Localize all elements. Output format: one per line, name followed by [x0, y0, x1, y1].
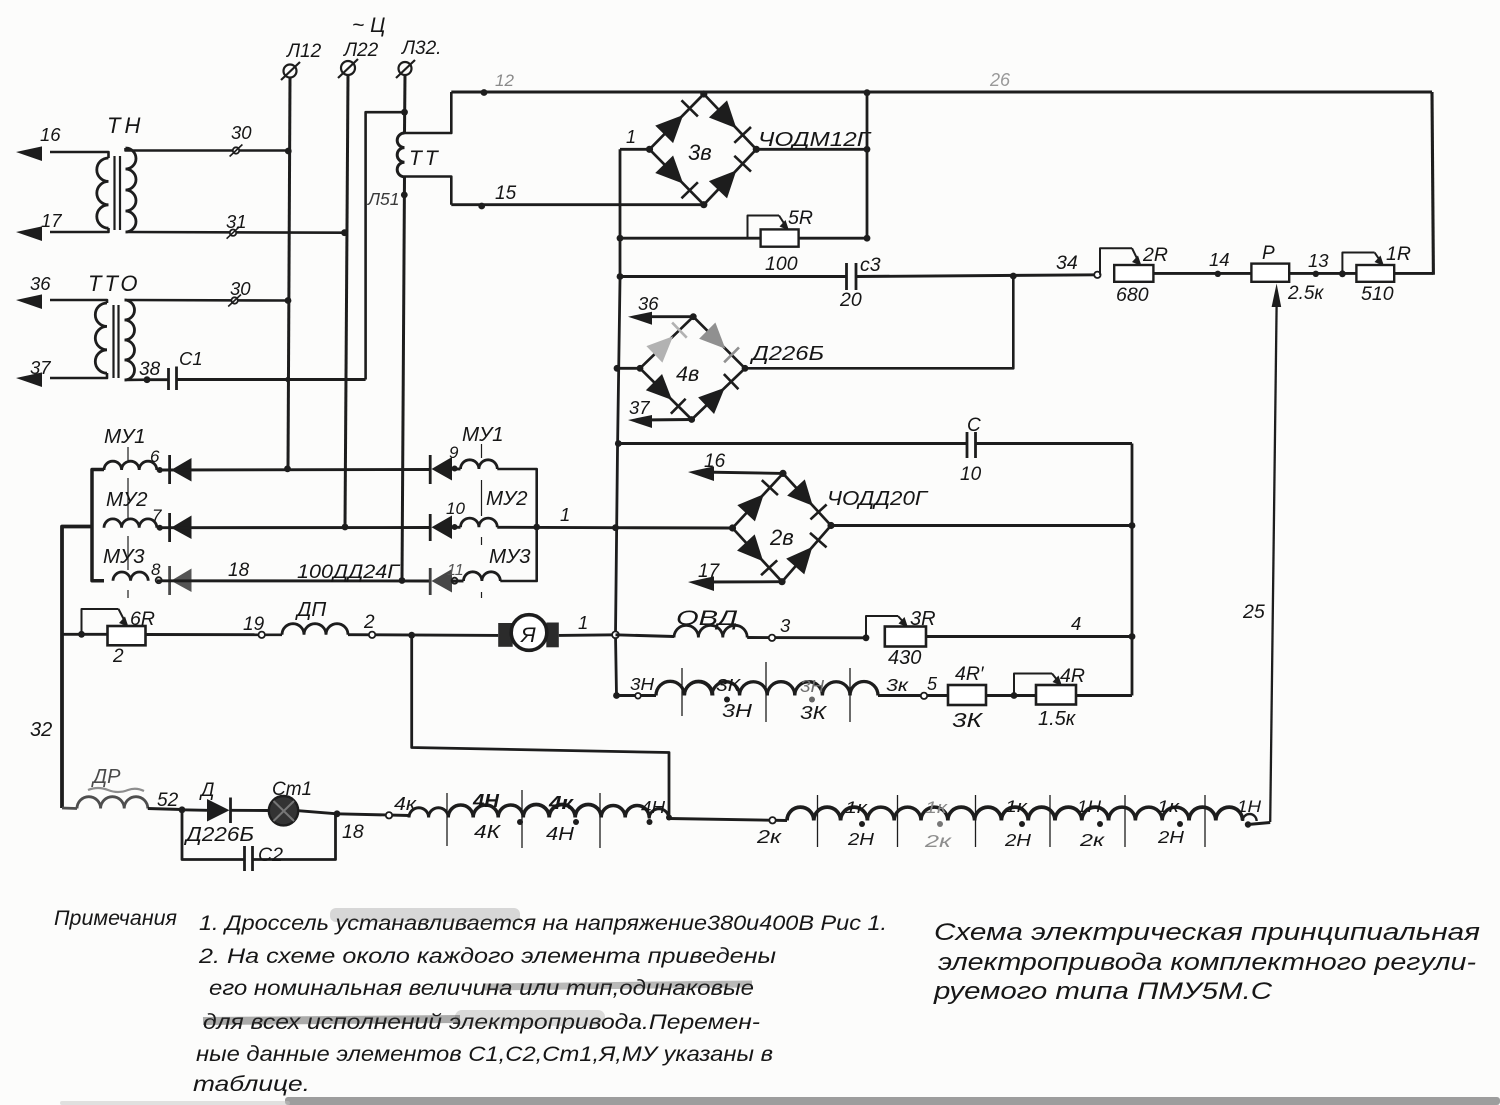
node junction at L12 — [285, 148, 292, 155]
svg-text:его номинальная величина или т: его номинальная величина или тип,одинако… — [209, 977, 754, 1000]
svg-text:4R′: 4R′ — [955, 663, 985, 685]
svg-text:18: 18 — [228, 560, 250, 581]
svg-text:1к: 1к — [845, 798, 868, 817]
svg-text:ные данные элементов С1,С2,Ст1: ные данные элементов С1,С2,Ст1,Я,МУ указ… — [196, 1043, 773, 1066]
svg-text:1к: 1к — [1157, 797, 1180, 816]
winding 4K-4N chain — [409, 808, 448, 818]
node 13 — [1289, 272, 1356, 275]
svg-text:МУ2: МУ2 — [106, 488, 148, 511]
svg-text:36: 36 — [30, 273, 51, 294]
wire 30 row (TTO secondary top) — [125, 299, 289, 302]
node junction step-wire — [408, 632, 415, 639]
wire 4B output to C3 row — [745, 276, 1013, 368]
rectifier bridge 3B 40DM12G — [650, 94, 757, 205]
svg-text:6R: 6R — [130, 608, 155, 630]
wire bypass from L32 to C1 row — [366, 112, 405, 379]
svg-text:МУ2: МУ2 — [486, 487, 528, 510]
capacitor C 10 — [966, 432, 969, 458]
diode MU3 right (smudged) — [429, 568, 432, 595]
svg-text:1: 1 — [626, 127, 636, 147]
svg-text:37: 37 — [30, 357, 51, 378]
svg-text:МУ3: МУ3 — [103, 545, 145, 568]
svg-text:30: 30 — [230, 278, 251, 299]
svg-text:2Н: 2Н — [1157, 827, 1185, 847]
svg-text:2Н: 2Н — [847, 829, 875, 849]
svg-text:5R: 5R — [788, 207, 813, 229]
resistor 5R 100 — [761, 229, 799, 246]
svg-text:Л32.: Л32. — [400, 38, 441, 59]
svg-text:680: 680 — [1116, 284, 1149, 306]
wire MU1 row — [157, 468, 430, 471]
node 2 — [348, 633, 498, 637]
wire 17 arrow from 2B bottom — [700, 580, 782, 583]
wire L22 vertical — [345, 75, 348, 527]
svg-text:1.5к: 1.5к — [1038, 708, 1077, 730]
svg-text:37: 37 — [629, 397, 650, 418]
svg-text:34: 34 — [1056, 252, 1078, 274]
svg-text:3к: 3к — [886, 675, 909, 695]
svg-text:Схема электрическая принци: Схема электрическая принципиальная — [934, 919, 1480, 946]
svg-text:Примечания: Примечания — [54, 906, 178, 930]
svg-text:100: 100 — [765, 253, 798, 275]
wire node 1 to bridge — [620, 148, 650, 151]
wire MU1r to node1 rail — [497, 469, 536, 527]
svg-text:12: 12 — [495, 71, 514, 90]
winding 3N-3K — [656, 681, 713, 695]
svg-text:510: 510 — [1361, 283, 1394, 305]
wire MU3r up to node1 row — [500, 527, 536, 581]
wire TTO primary bottom + arrow 37 — [50, 373, 107, 378]
svg-text:38: 38 — [139, 359, 161, 380]
svg-text:3Н: 3Н — [722, 701, 753, 721]
svg-text:52: 52 — [157, 790, 179, 811]
wire C row — [618, 442, 967, 445]
rectifier bridge 2B 40DD20G — [733, 473, 832, 581]
svg-text:18: 18 — [342, 821, 364, 843]
signal lamp St1 — [231, 809, 269, 812]
transformer TT — [397, 133, 404, 177]
svg-text:3Н: 3Н — [630, 674, 654, 694]
svg-text:8: 8 — [151, 560, 161, 579]
wire 5R row — [620, 237, 761, 240]
wire right drop from 26 to 1R — [1432, 92, 1433, 275]
diode 4B bottom-left — [646, 374, 672, 400]
wire 15 — [451, 203, 704, 206]
wire 36 arrow from 4B top — [640, 315, 693, 318]
node junction at L22 — [341, 229, 348, 236]
node 52 — [148, 809, 182, 810]
svg-text:Л12: Л12 — [285, 41, 322, 62]
node junction to 4B output — [1010, 273, 1017, 280]
svg-text:1Н: 1Н — [1237, 797, 1262, 816]
node L51 — [401, 192, 408, 199]
svg-text:17: 17 — [698, 561, 721, 582]
diode 4B top-right (faded) — [699, 322, 725, 348]
wire TH primary bottom lead + arrow 17 — [50, 228, 109, 232]
inductor OVD — [616, 635, 675, 637]
svg-text:2Н: 2Н — [1004, 830, 1032, 850]
svg-text:11: 11 — [447, 562, 464, 579]
wire step from node 2 to series winding chain — [412, 635, 669, 818]
wire 37 arrow from 4B bottom — [640, 418, 692, 421]
svg-text:2к: 2к — [924, 831, 953, 851]
svg-text:10: 10 — [960, 464, 982, 485]
node 18 — [298, 811, 337, 814]
diode 3B bottom-right — [709, 170, 736, 198]
svg-text:Д226Б: Д226Б — [184, 824, 254, 846]
wire 867 vertical — [866, 92, 869, 238]
svg-text:2.5к: 2.5к — [1287, 283, 1324, 304]
svg-text:МУ1: МУ1 — [462, 423, 504, 446]
svg-text:26: 26 — [989, 70, 1011, 90]
svg-text:3К: 3К — [800, 703, 828, 723]
wire node1 row — [497, 526, 615, 529]
diode 3B bottom-left — [655, 156, 683, 184]
svg-text:20: 20 — [839, 289, 862, 311]
diode 2B bottom-right — [786, 547, 812, 575]
svg-text:15: 15 — [495, 183, 517, 204]
node 34 — [1094, 272, 1100, 278]
diode 3B top-left — [655, 115, 683, 143]
diode 2B top-left — [737, 494, 763, 521]
svg-text:Л22: Л22 — [342, 40, 379, 61]
svg-text:ЧОДМ12Г: ЧОДМ12Г — [758, 128, 872, 151]
diode D D226B — [182, 808, 207, 811]
svg-text:19: 19 — [243, 614, 265, 635]
wire 31 row (TH secondary bottom) — [126, 231, 346, 234]
svg-text:25: 25 — [1242, 601, 1265, 623]
svg-text:4к: 4к — [548, 792, 575, 813]
svg-text:4Н: 4Н — [472, 791, 500, 811]
diode MU1 right — [429, 455, 432, 484]
svg-text:Ст1: Ст1 — [272, 779, 312, 800]
wire 3N row — [613, 692, 620, 699]
svg-text:ТТО: ТТО — [88, 271, 141, 296]
svg-text:100ДД24Г: 100ДД24Г — [297, 562, 401, 583]
node 5 — [878, 694, 948, 697]
wire chain end to 25 riser — [1248, 823, 1270, 825]
diode MU2 left — [168, 513, 171, 542]
wire 16 arrow from 2B top — [700, 472, 783, 473]
svg-text:таблице.: таблице. — [193, 1073, 310, 1096]
svg-text:1R: 1R — [1386, 243, 1411, 265]
wire TTO primary top + arrow 36 — [50, 300, 107, 303]
svg-text:3К: 3К — [716, 675, 742, 695]
diode MU3 left (smudged) — [168, 566, 171, 595]
wire L32 vertical — [403, 75, 407, 133]
svg-text:С: С — [967, 415, 981, 436]
diode 4B bottom-right — [698, 388, 725, 414]
svg-text:ТН: ТН — [107, 113, 144, 138]
capacitor C2 branch — [182, 810, 244, 860]
svg-text:3Н: 3Н — [800, 676, 824, 696]
svg-text:4в: 4в — [676, 362, 699, 386]
svg-text:30: 30 — [231, 122, 252, 143]
svg-text:7: 7 — [152, 506, 162, 525]
wire node1 row to 2B left — [616, 526, 733, 529]
motor armature Ya — [498, 623, 513, 647]
svg-text:Д226Б: Д226Б — [750, 342, 824, 365]
resistor 3R 430 — [885, 627, 926, 647]
svg-text:17: 17 — [41, 210, 62, 231]
diode 2B top-right — [787, 479, 813, 505]
svg-text:10: 10 — [446, 499, 465, 518]
svg-text:1. Дроссель устанавливается н: 1. Дроссель устанавливается на напряжени… — [199, 912, 887, 935]
resistor 1R 510 — [1356, 265, 1394, 282]
svg-text:ДР: ДР — [91, 766, 121, 788]
diode 4B top-left (faded) — [646, 336, 673, 362]
svg-text:31: 31 — [226, 211, 247, 232]
svg-text:2: 2 — [363, 612, 375, 633]
left rail (32) — [62, 527, 92, 809]
resistor 4Rp 3K — [948, 685, 986, 705]
svg-text:1к: 1к — [1005, 797, 1028, 816]
wire 4R to right rail — [1076, 694, 1132, 697]
node 30 — [231, 297, 237, 303]
svg-text:2. На схеме около каждого эл: 2. На схеме около каждого элемента приве… — [198, 945, 777, 968]
svg-text:4К: 4К — [474, 821, 501, 842]
potentiometer P 2.5k — [1251, 264, 1289, 282]
rectifier bridge 4B D226B — [640, 317, 745, 420]
svg-text:2R: 2R — [1142, 244, 1168, 266]
resistor 4R 1.5k — [1036, 685, 1076, 705]
svg-text:ДП: ДП — [295, 598, 326, 621]
svg-text:2к: 2к — [756, 826, 783, 847]
svg-text:2: 2 — [112, 646, 124, 667]
node 31 — [230, 230, 236, 236]
svg-text:16: 16 — [704, 451, 726, 472]
diode 2B bottom-left — [737, 534, 763, 561]
wire bridge out to 867 rail — [756, 148, 867, 151]
svg-text:С1: С1 — [179, 348, 203, 369]
wire TH primary top lead + arrow 16 — [50, 152, 109, 158]
svg-text:4R: 4R — [1060, 665, 1085, 687]
svg-text:16: 16 — [40, 124, 61, 145]
winding 1K-2N series chain — [787, 807, 867, 820]
svg-text:32: 32 — [30, 719, 52, 741]
svg-text:руемого типа ПМУ5М.С: руемого типа ПМУ5М.С — [933, 978, 1273, 1005]
capacitor C1 — [167, 368, 170, 390]
diode 3B top-right — [709, 100, 736, 128]
wire TT to 15 — [405, 177, 452, 205]
wire to 4R — [986, 694, 1036, 697]
wire node 18 to 4k — [337, 814, 409, 816]
svg-text:36: 36 — [638, 293, 659, 314]
resistor 2R 680 — [1114, 265, 1153, 282]
svg-text:МУ3: МУ3 — [489, 545, 531, 568]
wire MU2 row — [157, 526, 430, 529]
wire 30 row (TH secondary top) — [126, 148, 289, 151]
svg-text:2к: 2к — [1079, 830, 1105, 850]
wire C3 row — [620, 275, 846, 278]
svg-text:1: 1 — [578, 612, 588, 633]
svg-text:электропривода комплектного: электропривода комплектного регули- — [938, 949, 1476, 976]
svg-text:5: 5 — [927, 674, 938, 694]
svg-text:ТТ: ТТ — [409, 147, 441, 170]
svg-text:1к: 1к — [925, 798, 948, 817]
svg-text:~ Ц: ~ Ц — [352, 14, 385, 37]
svg-text:6: 6 — [150, 447, 160, 466]
svg-text:3в: 3в — [688, 140, 712, 165]
wire 2B right to right rail — [831, 524, 1132, 527]
wire armature to node1 junction — [559, 633, 616, 637]
MU bracket left — [92, 470, 104, 581]
svg-text:3К: 3К — [952, 710, 984, 732]
svg-text:3: 3 — [780, 615, 791, 636]
svg-text:МУ1: МУ1 — [104, 425, 146, 448]
svg-text:2в: 2в — [769, 525, 794, 550]
svg-text:3R: 3R — [910, 608, 936, 630]
resistor 6R 2 — [62, 633, 108, 636]
node on wire 12 — [481, 89, 488, 96]
node 14 — [1215, 271, 1221, 277]
capacitor C3 20 — [845, 263, 848, 290]
svg-text:4к: 4к — [394, 794, 418, 814]
wire to node 19 — [146, 633, 283, 636]
diode MU2 right — [429, 514, 432, 541]
wire 25 to P wiper — [1270, 306, 1276, 822]
wire TT to 12 — [405, 92, 452, 133]
svg-text:Р: Р — [1262, 243, 1275, 264]
node 3 — [747, 636, 866, 639]
wire to node 4 — [926, 635, 1132, 638]
svg-text:ЧОДД20Г: ЧОДД20Г — [827, 487, 929, 510]
wire 12 (top bus) — [451, 90, 1432, 93]
node 38 — [125, 378, 148, 381]
wire to 2k node — [669, 819, 787, 821]
node junction L32 top — [401, 109, 408, 116]
node junction at L12 — [285, 297, 292, 304]
node 30 — [233, 147, 239, 153]
svg-text:1: 1 — [560, 504, 570, 525]
svg-text:1Н: 1Н — [1077, 797, 1102, 816]
wire MU3 row 18 / 100DD24G — [157, 579, 431, 582]
svg-text:13: 13 — [1308, 250, 1329, 271]
svg-text:с3: с3 — [860, 254, 881, 276]
decorative scan noise bottom — [285, 1097, 1500, 1105]
svg-text:4Н: 4Н — [641, 797, 665, 817]
diode MU1 left — [168, 455, 171, 484]
svg-text:Д: Д — [199, 780, 214, 801]
wire C1 row to bypass — [147, 378, 169, 381]
wire main left-center vertical rail (node 1) — [616, 149, 621, 695]
svg-text:4: 4 — [1071, 613, 1081, 634]
wire L12 vertical — [288, 78, 290, 469]
svg-text:Я: Я — [520, 623, 536, 647]
svg-text:14: 14 — [1209, 249, 1230, 270]
svg-text:430: 430 — [888, 647, 921, 669]
wire 4B left to 620 rail — [616, 367, 640, 370]
svg-text:С2: С2 — [258, 844, 283, 866]
svg-text:Л51: Л51 — [367, 189, 399, 209]
svg-text:4Н: 4Н — [546, 823, 575, 844]
svg-text:9: 9 — [449, 443, 459, 462]
